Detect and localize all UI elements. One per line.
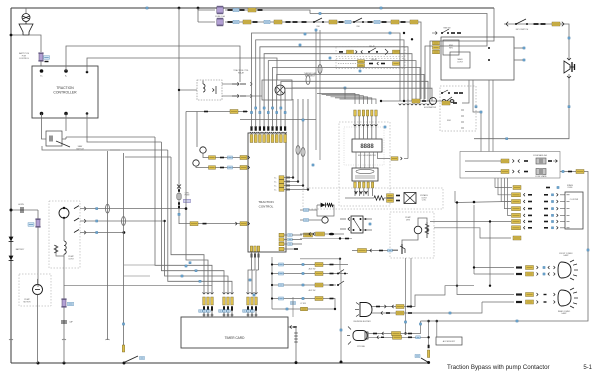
svg-text:TIMER CARD: TIMER CARD <box>225 336 246 340</box>
svg-text:SW: SW <box>356 26 359 28</box>
svg-text:HORN: HORN <box>18 204 24 206</box>
svg-text:RELAY: RELAY <box>369 45 376 48</box>
svg-text:RELAY: RELAY <box>238 71 245 74</box>
svg-text:FUSE MAIN 40A: FUSE MAIN 40A <box>533 154 547 157</box>
svg-text:TRACTION: TRACTION <box>56 86 74 90</box>
svg-text:AUX SW: AUX SW <box>309 268 316 271</box>
svg-text:B+: B+ <box>274 190 276 192</box>
svg-text:RELAY: RELAY <box>371 58 378 61</box>
svg-text:B-: B- <box>65 76 67 78</box>
svg-text:SWITCH: SWITCH <box>76 148 84 150</box>
svg-text:CONT: CONT <box>457 61 463 63</box>
svg-text:FUSE: FUSE <box>568 187 574 189</box>
svg-text:STROBE: STROBE <box>357 346 366 348</box>
svg-text:MOTOR: MOTOR <box>23 301 31 303</box>
svg-text:B+: B+ <box>274 182 276 184</box>
svg-text:AUX SW: AUX SW <box>309 289 316 292</box>
svg-text:CONTROL: CONTROL <box>259 205 274 209</box>
svg-text:REVERSE BUZZER: REVERSE BUZZER <box>353 321 371 323</box>
svg-text:FUSE SPARE: FUSE SPARE <box>535 175 547 178</box>
svg-text:KEY SWITCH: KEY SWITCH <box>516 29 529 31</box>
svg-text:COIL: COIL <box>422 200 426 202</box>
svg-text:FUSE 10A: FUSE 10A <box>215 15 225 18</box>
svg-text:CLUSTER: CLUSTER <box>570 199 579 201</box>
svg-text:CONTROLLER: CONTROLLER <box>53 91 77 95</box>
svg-text:SW: SW <box>316 26 319 28</box>
svg-text:LP SW: LP SW <box>300 303 306 305</box>
svg-text:5-1: 5-1 <box>583 365 592 371</box>
svg-text:LAMP: LAMP <box>564 254 570 257</box>
svg-text:Traction Bypass with pump Cont: Traction Bypass with pump Contactor <box>447 364 550 371</box>
svg-text:TRACTION: TRACTION <box>258 200 273 204</box>
svg-text:CONT: CONT <box>68 258 74 260</box>
svg-text:FUSE: FUSE <box>185 195 191 197</box>
svg-text:CONTROL: CONTROL <box>19 58 30 60</box>
svg-text:B+: B+ <box>274 178 276 180</box>
svg-text:HOURMETER: HOURMETER <box>424 107 437 109</box>
svg-text:FAN SW: FAN SW <box>444 27 451 30</box>
svg-text:BATTERY: BATTERY <box>16 248 25 251</box>
svg-text:SRO: SRO <box>447 120 452 122</box>
svg-text:8888: 8888 <box>360 144 374 150</box>
svg-text:ACCESSORY: ACCESSORY <box>443 340 456 343</box>
svg-text:B+: B+ <box>274 186 276 188</box>
svg-text:LAMP: LAMP <box>562 312 568 315</box>
